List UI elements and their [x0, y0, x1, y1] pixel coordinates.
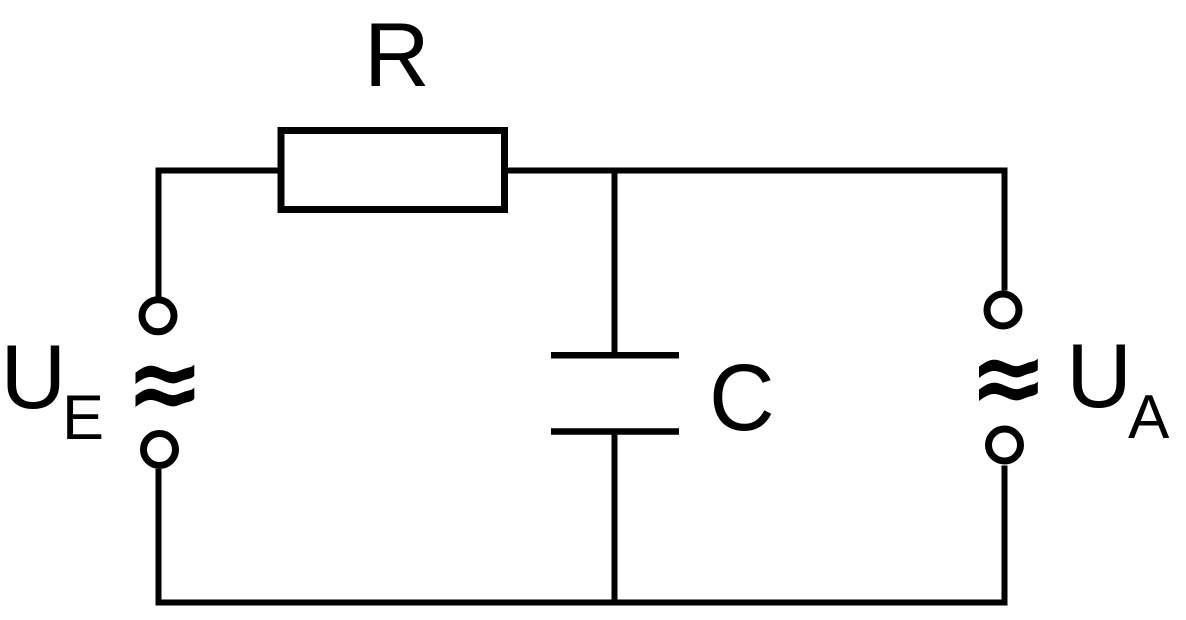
wire bottom rail with left and right risers [159, 466, 1005, 603]
terminal circle output top [987, 294, 1019, 326]
terminal circle input top [142, 300, 174, 332]
svg-text:A: A [1128, 383, 1170, 452]
svg-text:U: U [1066, 326, 1132, 427]
svg-text:E: E [62, 383, 104, 453]
wire top rail with left and right drops [159, 171, 1005, 297]
terminal circle input bottom [144, 434, 176, 466]
wire capacitor bottom stub [612, 432, 618, 603]
capacitor C top plate [551, 352, 679, 359]
AC source symbol right [979, 359, 1038, 401]
resistor R [281, 131, 505, 210]
terminal circle output bottom [989, 429, 1021, 461]
AC source symbol left [136, 365, 195, 407]
svg-text:C: C [709, 344, 775, 450]
svg-text:U: U [1, 327, 67, 428]
svg-text:R: R [364, 5, 430, 106]
wire capacitor top stub [612, 171, 618, 356]
capacitor C bottom plate [551, 428, 679, 435]
